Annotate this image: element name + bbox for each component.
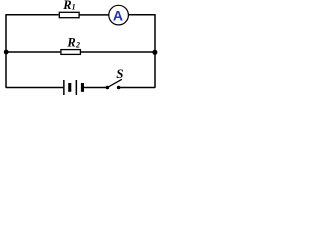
svg-text:1: 1 xyxy=(72,2,76,11)
svg-text:2: 2 xyxy=(75,41,80,50)
svg-text:R: R xyxy=(62,0,71,12)
svg-text:A: A xyxy=(113,8,123,24)
svg-text:R: R xyxy=(66,35,75,49)
svg-text:S: S xyxy=(116,66,123,81)
